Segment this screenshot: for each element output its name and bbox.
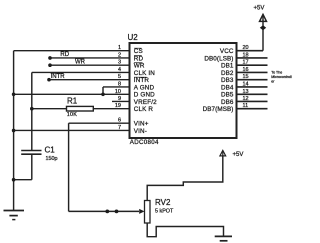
svg-text:DB3: DB3 (221, 77, 234, 84)
svg-text:19: 19 (115, 103, 121, 109)
svg-text:DB1: DB1 (221, 63, 234, 70)
svg-text:1: 1 (118, 45, 121, 51)
svg-text:DB2: DB2 (221, 70, 234, 77)
svg-text:+5V: +5V (233, 152, 244, 158)
svg-text:DB0(LSB): DB0(LSB) (204, 55, 233, 62)
svg-text:6: 6 (118, 118, 121, 124)
svg-text:D GND: D GND (134, 92, 155, 99)
svg-text:+5V: +5V (254, 6, 265, 12)
svg-text:C1: C1 (45, 146, 56, 155)
svg-text:17: 17 (243, 60, 249, 66)
svg-text:ADC0804: ADC0804 (130, 139, 159, 146)
svg-text:9: 9 (118, 96, 121, 102)
svg-text:13: 13 (243, 89, 249, 95)
svg-text:VREF/2: VREF/2 (134, 99, 157, 106)
svg-text:INTR: INTR (51, 74, 66, 80)
svg-text:RD: RD (60, 52, 69, 58)
svg-text:15: 15 (243, 74, 249, 80)
svg-text:VIN+: VIN+ (134, 121, 149, 128)
svg-text:3: 3 (118, 60, 121, 66)
svg-text:U2: U2 (128, 33, 139, 42)
svg-text:CLK R: CLK R (134, 106, 154, 113)
svg-text:DB6: DB6 (221, 99, 234, 106)
svg-text:7: 7 (118, 125, 121, 131)
svg-text:10K: 10K (67, 112, 78, 118)
svg-text:VCC: VCC (220, 48, 234, 55)
svg-text:DB7(MSB): DB7(MSB) (203, 106, 234, 113)
svg-text:5: 5 (118, 74, 121, 80)
svg-text:14: 14 (243, 81, 249, 87)
svg-text:4: 4 (118, 67, 121, 73)
svg-text:10: 10 (115, 89, 121, 95)
svg-text:R1: R1 (67, 97, 78, 106)
svg-text:A GND: A GND (134, 84, 155, 91)
svg-text:VIN-: VIN- (134, 128, 147, 135)
svg-text:RD: RD (134, 55, 144, 62)
svg-text:20: 20 (243, 45, 249, 51)
svg-text:18: 18 (243, 52, 249, 58)
svg-text:DB4: DB4 (221, 84, 234, 91)
svg-text:12: 12 (243, 96, 249, 102)
svg-text:To The: To The (271, 71, 282, 75)
svg-text:CS: CS (134, 48, 143, 55)
svg-text:WR: WR (75, 59, 86, 65)
svg-text:11: 11 (243, 103, 249, 109)
svg-text:RV2: RV2 (155, 198, 171, 207)
svg-text:5 kPOT: 5 kPOT (155, 209, 174, 215)
svg-text:16: 16 (243, 67, 249, 73)
svg-text:INTR: INTR (134, 77, 150, 84)
svg-text:CLK IN: CLK IN (134, 70, 155, 77)
svg-text:DB5: DB5 (221, 92, 234, 99)
svg-text:WR: WR (134, 63, 145, 70)
svg-text:150p: 150p (46, 156, 58, 162)
svg-text:2: 2 (118, 52, 121, 58)
svg-text:8: 8 (118, 81, 121, 87)
